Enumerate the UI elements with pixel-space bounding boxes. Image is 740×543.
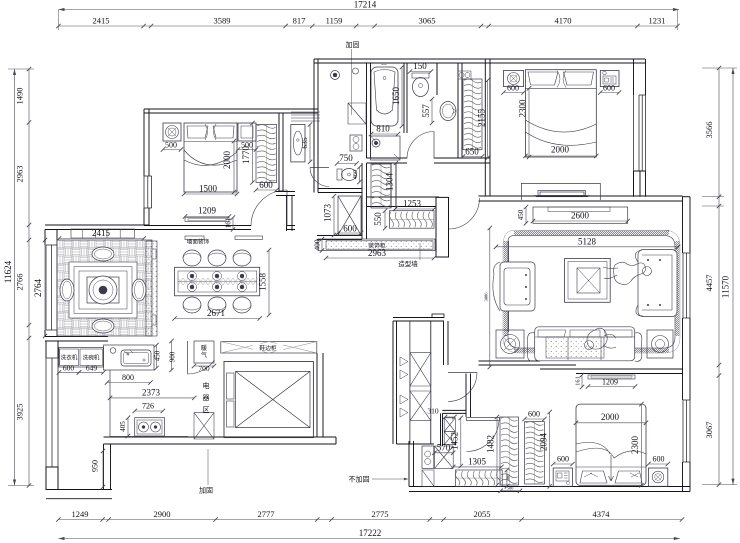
svg-text:2963: 2963 bbox=[368, 248, 387, 258]
wall hall vertical x314 lower bbox=[314, 120, 318, 193]
wall corridor bottom / bedroom3 top bbox=[540, 365, 576, 369]
svg-text:2671: 2671 bbox=[207, 308, 225, 318]
nightstand right bedroom3 bbox=[649, 468, 668, 486]
svg-text:1304: 1304 bbox=[385, 173, 395, 192]
shower area bbox=[371, 136, 401, 160]
wash basin bbox=[440, 102, 456, 121]
bathtub bbox=[371, 67, 398, 126]
svg-text:2155: 2155 bbox=[477, 109, 487, 128]
svg-text:2415: 2415 bbox=[93, 16, 110, 26]
svg-text:1253: 1253 bbox=[403, 199, 422, 209]
wall toilet partition bbox=[436, 63, 438, 95]
svg-text:区: 区 bbox=[203, 406, 210, 414]
svg-text:洗碗机: 洗碗机 bbox=[83, 354, 100, 362]
svg-text:400: 400 bbox=[313, 239, 322, 251]
dims dining bay bbox=[59, 238, 144, 240]
pipe shaft bath2 bbox=[444, 418, 455, 432]
svg-text:墙面装饰: 墙面装饰 bbox=[187, 238, 210, 246]
door WC bbox=[310, 167, 329, 169]
bed bedroom3 bbox=[576, 404, 646, 485]
svg-text:600: 600 bbox=[653, 455, 665, 464]
svg-text:161: 161 bbox=[225, 217, 233, 228]
TV cabinet bedroom2 bbox=[521, 183, 600, 200]
nightstand left bedroom2 bbox=[504, 71, 524, 87]
svg-text:450: 450 bbox=[517, 209, 525, 220]
svg-text:11624: 11624 bbox=[3, 260, 13, 283]
svg-text:300: 300 bbox=[505, 474, 510, 482]
svg-text:3566: 3566 bbox=[704, 122, 714, 139]
top dimension chain segments bbox=[59, 25, 678, 27]
armchair left bbox=[500, 262, 535, 311]
side table A bbox=[496, 330, 524, 358]
dims kitchen bbox=[110, 397, 194, 399]
svg-text:600: 600 bbox=[507, 84, 519, 93]
wall hall left of elevator bbox=[287, 196, 293, 231]
svg-text:1073: 1073 bbox=[323, 204, 333, 223]
door living-corridor bbox=[448, 372, 477, 374]
svg-text:电: 电 bbox=[203, 381, 210, 390]
coffee table bbox=[565, 258, 611, 302]
wall connector hall left upper bbox=[314, 59, 318, 193]
wardrobe col2 bedroom3 bbox=[525, 422, 545, 484]
dims bedroom2 bbox=[504, 92, 524, 94]
svg-text:450: 450 bbox=[154, 350, 162, 361]
dining bay floor hatch bbox=[57, 240, 152, 336]
carpet living bbox=[508, 230, 675, 348]
svg-text:加固: 加固 bbox=[199, 486, 213, 495]
toilet 150 bbox=[412, 73, 429, 78]
svg-text:2766: 2766 bbox=[15, 274, 25, 291]
svg-text:1452: 1452 bbox=[450, 432, 460, 450]
wall bedroom3 left bbox=[466, 374, 471, 418]
door bedroom3 bbox=[467, 418, 500, 421]
bath2 cabinet xbox bbox=[435, 446, 454, 468]
svg-text:2000: 2000 bbox=[551, 145, 570, 155]
wall kitchen bottom-left bbox=[46, 490, 112, 499]
left dimension chains bbox=[14, 69, 16, 486]
zigzag shoe row bedroom3 bbox=[456, 470, 503, 486]
wall kitchen bottom bbox=[104, 437, 337, 444]
svg-text:2777: 2777 bbox=[258, 509, 275, 519]
wall bedroom1 top bbox=[144, 109, 318, 113]
wall bath2 north bbox=[442, 410, 466, 413]
svg-text:600: 600 bbox=[259, 180, 273, 190]
svg-text:2300: 2300 bbox=[630, 436, 640, 455]
wall closet/bedroom2 bbox=[485, 59, 490, 196]
wall bedroom2 bottom bbox=[490, 196, 640, 201]
boiler box bbox=[194, 341, 214, 363]
wall right upper block (bedroom2 right) with window bbox=[634, 59, 646, 95]
person on bottom sofa bbox=[587, 328, 607, 349]
wardrobe col1 bedroom3 bbox=[500, 417, 519, 485]
TV ledge bedroom3 bbox=[588, 375, 635, 379]
svg-text:1650: 1650 bbox=[391, 87, 401, 106]
nightstand right bedroom2 (phone) bbox=[600, 71, 619, 87]
wall WC bottom bbox=[318, 189, 362, 193]
svg-text:5128: 5128 bbox=[578, 237, 597, 247]
svg-text:2373: 2373 bbox=[142, 388, 161, 398]
svg-text:不加固: 不加固 bbox=[349, 475, 370, 484]
dining bay rug bbox=[69, 262, 137, 318]
svg-text:635: 635 bbox=[300, 137, 309, 149]
wall bedroom1 left with window bbox=[144, 109, 149, 176]
door bathroom bbox=[433, 132, 435, 159]
svg-text:405: 405 bbox=[119, 421, 127, 432]
wall right lower block with windows bbox=[683, 197, 691, 253]
wall dining top jog bbox=[45, 225, 149, 230]
wall corridor right x391 bbox=[391, 163, 396, 208]
svg-text:500: 500 bbox=[507, 485, 515, 490]
svg-text:4170: 4170 bbox=[555, 16, 572, 26]
bottom sofa bbox=[535, 327, 635, 361]
svg-text:1305: 1305 bbox=[468, 456, 487, 466]
wall dining bay bottom bbox=[45, 337, 108, 342]
ceiling lamp hall bbox=[331, 71, 340, 80]
svg-text:500: 500 bbox=[165, 141, 177, 150]
svg-text:1500: 1500 bbox=[199, 184, 218, 194]
shoe cabinet 550 bbox=[390, 211, 435, 229]
corner shelf hall bbox=[348, 103, 366, 124]
wall bath2 left lower bbox=[409, 441, 414, 487]
svg-text:≈≈: ≈≈ bbox=[381, 62, 387, 68]
svg-text:310: 310 bbox=[427, 407, 439, 416]
wall bathroom left bbox=[367, 63, 371, 158]
bed bedroom1 bbox=[184, 123, 237, 192]
basin unit hall bbox=[291, 125, 305, 162]
left bay chain 2764 bbox=[44, 240, 46, 336]
top dimension chain total 17214 bbox=[59, 9, 680, 11]
stove bbox=[135, 418, 165, 436]
svg-text:洗衣机: 洗衣机 bbox=[61, 354, 78, 362]
svg-text:1249: 1249 bbox=[72, 509, 89, 519]
svg-text:2764: 2764 bbox=[33, 279, 43, 298]
kitchen sink bbox=[104, 345, 155, 370]
wall bedroom1 right partition bbox=[279, 113, 283, 192]
side table B bbox=[647, 330, 673, 358]
round table bay bbox=[89, 276, 117, 304]
svg-text:2055: 2055 bbox=[474, 509, 491, 519]
kitchen door bbox=[187, 341, 189, 374]
dims bedroom1 bbox=[163, 149, 181, 151]
nightstand left bedroom3 (tv) bbox=[553, 468, 572, 486]
svg-text:700: 700 bbox=[198, 364, 210, 373]
washer boxes bbox=[59, 347, 104, 367]
TV wall unit bbox=[533, 207, 628, 223]
svg-text:2300: 2300 bbox=[518, 99, 528, 118]
svg-text:鞋边柜: 鞋边柜 bbox=[259, 344, 277, 352]
wall column entry/living bbox=[436, 197, 449, 257]
dining chairs top bbox=[183, 250, 201, 266]
person on sofa right bbox=[614, 262, 646, 284]
svg-text:750: 750 bbox=[339, 153, 353, 163]
svg-text:17222: 17222 bbox=[359, 528, 382, 538]
washer stack hall bbox=[350, 135, 362, 151]
dining chairs bottom bbox=[183, 297, 201, 313]
svg-text:暖: 暖 bbox=[201, 344, 207, 352]
bottom dimension chains bbox=[58, 519, 682, 521]
wall kitchen left with window bbox=[46, 341, 58, 358]
svg-text:3925: 3925 bbox=[15, 404, 25, 421]
bed bedroom2 bbox=[525, 70, 596, 157]
svg-text:600: 600 bbox=[63, 364, 75, 373]
svg-text:2094: 2094 bbox=[538, 433, 548, 452]
hooks bbox=[458, 71, 471, 79]
svg-text:1159: 1159 bbox=[326, 16, 343, 26]
svg-text:600: 600 bbox=[557, 455, 569, 464]
wall WC right / corridor left bbox=[362, 163, 367, 239]
closet 1304 bbox=[371, 164, 391, 208]
door bedroom1 bbox=[286, 190, 288, 226]
svg-text:810: 810 bbox=[376, 124, 390, 134]
svg-text:器: 器 bbox=[203, 394, 210, 402]
wall bathroom bottom bbox=[367, 158, 408, 163]
elevator hall shaft bbox=[338, 196, 361, 235]
svg-text:3065: 3065 bbox=[419, 16, 436, 26]
bay chairs bbox=[92, 247, 114, 261]
wardrobe bedroom1 bbox=[256, 125, 277, 183]
svg-text:造型墙: 造型墙 bbox=[398, 259, 418, 268]
svg-text:150: 150 bbox=[413, 61, 427, 71]
svg-text:17214: 17214 bbox=[354, 0, 377, 10]
svg-text:460: 460 bbox=[352, 170, 359, 180]
right dimension chains bbox=[718, 68, 720, 485]
wall living bottom bbox=[479, 361, 541, 365]
svg-text:2600: 2600 bbox=[571, 211, 590, 221]
svg-text:2000: 2000 bbox=[601, 412, 620, 422]
bath2 vanity bbox=[422, 446, 434, 468]
svg-text:800: 800 bbox=[122, 373, 134, 382]
svg-text:1209: 1209 bbox=[602, 378, 618, 387]
svg-text:2415: 2415 bbox=[92, 228, 111, 238]
svg-text:1482: 1482 bbox=[486, 435, 496, 453]
svg-text:600: 600 bbox=[343, 224, 357, 234]
speckled pillar bbox=[146, 241, 157, 336]
svg-text:3067: 3067 bbox=[704, 422, 714, 439]
dotted rug bedroom3 top bbox=[546, 337, 604, 358]
entry door bbox=[448, 198, 450, 229]
svg-text:1209: 1209 bbox=[198, 206, 217, 216]
svg-text:加固: 加固 bbox=[346, 40, 360, 49]
svg-text:1231: 1231 bbox=[649, 16, 666, 26]
svg-text:1490: 1490 bbox=[15, 88, 25, 105]
chaise sofa right bbox=[638, 250, 677, 317]
svg-text:600: 600 bbox=[603, 84, 615, 93]
radiator cover dining north wall bbox=[71, 229, 135, 238]
wall dining bay left with window bbox=[45, 230, 57, 246]
svg-text:1558: 1558 bbox=[258, 273, 268, 292]
radiator boxes bbox=[409, 321, 411, 444]
WC toilet bbox=[337, 169, 342, 180]
svg-text:900: 900 bbox=[169, 351, 177, 362]
wall niche hall bbox=[291, 112, 320, 121]
entry cabinet band bbox=[221, 342, 317, 353]
svg-text:550: 550 bbox=[373, 212, 383, 226]
svg-text:649: 649 bbox=[86, 364, 98, 373]
dining table bbox=[175, 267, 260, 296]
wall decor ledges bbox=[185, 236, 204, 240]
svg-text:557: 557 bbox=[421, 104, 431, 118]
wall bedroom1 bottom bbox=[144, 226, 251, 230]
feature wall cabinet band bbox=[318, 239, 435, 251]
svg-text:2963: 2963 bbox=[15, 166, 25, 183]
wall bedroom3 bottom bbox=[409, 487, 690, 492]
windowsill bedroom1 bbox=[185, 218, 229, 222]
svg-text:161: 161 bbox=[575, 376, 582, 386]
svg-text:2775: 2775 bbox=[372, 509, 389, 519]
svg-text:817: 817 bbox=[293, 16, 306, 26]
svg-text:11570: 11570 bbox=[721, 275, 731, 298]
svg-text:3806: 3806 bbox=[483, 292, 488, 302]
dims dining table bbox=[175, 318, 260, 320]
wall bath2 west partition bbox=[441, 413, 443, 446]
svg-text:650: 650 bbox=[465, 147, 479, 157]
nightstand right bbox=[238, 123, 256, 141]
wall living top bbox=[367, 197, 440, 207]
bath2 corner shelf bbox=[422, 470, 434, 486]
corridor lower walls bbox=[393, 318, 444, 322]
closet room wardrobe 2155 bbox=[463, 79, 482, 150]
svg-text:4457: 4457 bbox=[704, 275, 714, 292]
kitchen counter bbox=[110, 436, 188, 438]
corner cabinet bbox=[194, 413, 214, 439]
wall tub partition bbox=[404, 63, 407, 133]
wall hall bottom piece bbox=[317, 236, 362, 240]
wall center-top bbox=[314, 59, 645, 63]
svg-text:3589: 3589 bbox=[214, 16, 231, 26]
svg-text:1770: 1770 bbox=[241, 146, 251, 165]
wall closet left bbox=[458, 63, 462, 158]
elevator shaft bbox=[224, 362, 313, 438]
svg-text:726: 726 bbox=[142, 402, 154, 411]
svg-text:4374: 4374 bbox=[593, 509, 611, 519]
svg-text:600: 600 bbox=[528, 410, 540, 419]
dim 950 kitchen bbox=[102, 451, 104, 487]
svg-text:950: 950 bbox=[91, 460, 100, 472]
svg-text:2000: 2000 bbox=[222, 151, 232, 170]
svg-text:2900: 2900 bbox=[154, 509, 171, 519]
nightstand left with plant bbox=[163, 123, 181, 141]
svg-text:气: 气 bbox=[201, 351, 207, 359]
